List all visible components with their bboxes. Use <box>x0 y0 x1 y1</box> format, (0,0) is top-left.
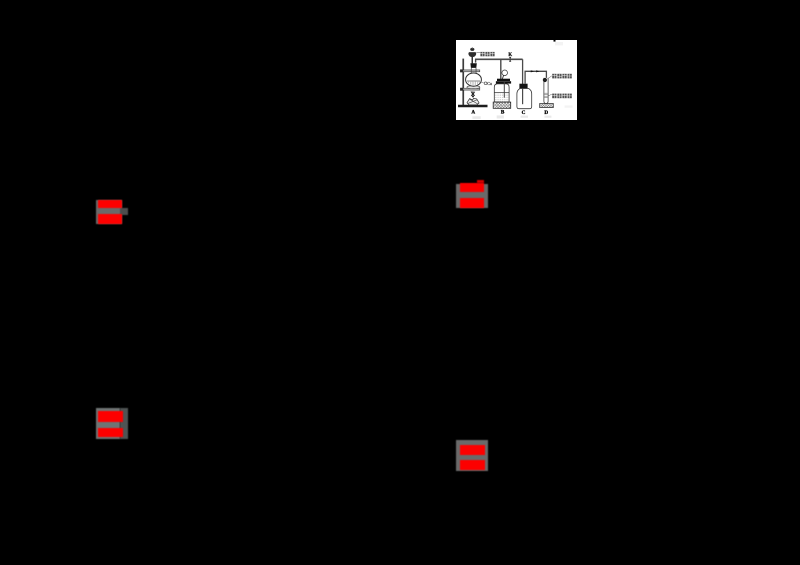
white background of diagram <box>456 40 577 120</box>
lamp wick collar <box>472 96 474 98</box>
B inner tube <box>503 81 505 98</box>
C inner long tube <box>521 89 523 105</box>
bottle C body <box>516 89 531 109</box>
Cu pointer tick <box>481 81 484 84</box>
D liquid (fuchsin) <box>544 93 548 98</box>
faint gray smudge top right <box>555 42 563 45</box>
main gas tube <box>475 58 523 60</box>
faint gray square right of D base <box>564 105 572 107</box>
svg-text:B: B <box>500 110 504 116</box>
gray square under A <box>472 116 480 119</box>
funnel label pointer <box>476 51 480 54</box>
iron stand base <box>458 105 488 108</box>
B stopper bands <box>497 79 510 81</box>
gray square under B <box>496 115 503 118</box>
B safety bulb <box>501 70 507 76</box>
flask bulb <box>465 73 481 86</box>
flask liquid surface <box>467 80 480 82</box>
svg-text:Cu: Cu <box>487 82 492 86</box>
lamp cross shading <box>468 99 477 104</box>
top edge black notch <box>553 40 555 42</box>
B bulb neck <box>502 75 503 79</box>
cotton label pointer <box>547 76 552 79</box>
label 浓硫酸 (3 glyph blobs) <box>480 52 494 56</box>
gray square under D <box>544 116 551 118</box>
lower ring bolt <box>460 88 463 91</box>
funnel stem tip in neck <box>472 73 473 76</box>
tube bend from flask stopper <box>474 59 476 62</box>
iron stand pole <box>462 59 464 105</box>
svg-text:D: D <box>544 110 548 116</box>
apparatus diagram panel (white box) <box>456 40 577 120</box>
svg-text:C: C <box>521 110 525 116</box>
C stopper <box>519 84 527 89</box>
upper clamp bar <box>460 70 479 72</box>
flask neck <box>471 68 476 74</box>
lower ring arm <box>460 88 479 90</box>
flask liquid hatch <box>468 82 479 86</box>
upper clamp bolt <box>460 69 463 72</box>
B base crosshatch block <box>493 102 511 108</box>
B riser tube <box>499 59 501 79</box>
B liquid dotted texture <box>494 94 508 101</box>
red mark 4 (bottom-right answer blot) <box>456 440 488 472</box>
label 碱性棉球 (4 glyph blobs) <box>552 74 572 79</box>
alcohol lamp flame <box>471 92 474 96</box>
C outlet tube <box>525 71 546 83</box>
gray square under C <box>520 116 527 118</box>
label 品红溶液 (4 glyph blobs) <box>552 94 572 99</box>
alkaline cotton ball <box>542 78 546 82</box>
funnel stem <box>471 57 473 64</box>
funnel bulb white stripe <box>468 51 475 52</box>
fuchsin label pointer <box>548 94 552 96</box>
test tube D <box>543 78 547 104</box>
svg-text:A: A <box>471 110 475 116</box>
dropping funnel tiny top stem <box>471 47 472 48</box>
dropping funnel stopper ball <box>470 48 474 51</box>
C downcomer tube <box>521 59 523 104</box>
Cu circle <box>484 82 487 85</box>
red mark 1 (top-left answer blot) <box>96 200 122 224</box>
alcohol lamp body <box>467 98 479 105</box>
dropping funnel bulb <box>468 51 476 58</box>
flask stopper <box>470 63 476 68</box>
plate under flask <box>466 86 479 89</box>
flow arrows <box>530 70 539 72</box>
flame core dot <box>472 92 474 95</box>
D base hatched block <box>539 104 553 108</box>
B liquid surface <box>494 91 509 93</box>
red mark 3 (bottom-left answer blot) <box>96 408 120 439</box>
red mark 2 (top-right answer blot) <box>456 184 488 208</box>
bottle B body <box>494 84 509 102</box>
stopcock symbol <box>509 57 511 62</box>
